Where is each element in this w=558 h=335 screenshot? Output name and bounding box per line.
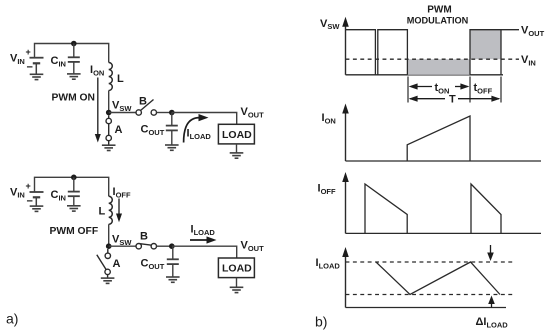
svg-text:a): a) xyxy=(6,311,18,327)
svg-text:CIN: CIN xyxy=(51,55,66,68)
ripple arrow up xyxy=(491,303,493,308)
wire LOAD to ground (PWM OFF) xyxy=(236,278,238,287)
node VSW junction dot (PWM ON) xyxy=(106,110,112,116)
VSW waveform VOUT level line xyxy=(501,29,519,31)
svg-text:VIN: VIN xyxy=(10,186,25,199)
svg-text:ILOAD: ILOAD xyxy=(187,128,212,141)
svg-text:IOFF: IOFF xyxy=(318,183,336,196)
inductor L (PWM OFF) xyxy=(109,196,113,224)
capacitor COUT (PWM OFF) xyxy=(167,246,179,277)
ground below switch A (PWM OFF) xyxy=(101,278,115,283)
switch B open (PWM ON) xyxy=(136,100,157,116)
wire LOAD to ground (PWM ON) xyxy=(236,144,238,153)
ground below LOAD (PWM OFF) xyxy=(230,287,244,292)
current arrow ION (PWM ON) xyxy=(97,78,99,135)
node COUT junction dot (PWM ON) xyxy=(169,110,175,116)
svg-text:+: + xyxy=(26,47,31,57)
svg-text:CIN: CIN xyxy=(51,189,66,202)
switch A open (PWM OFF) xyxy=(97,249,111,278)
ground below COUT (PWM ON) xyxy=(165,145,179,150)
svg-text:MODULATION: MODULATION xyxy=(407,16,469,26)
VSW waveform dimension ticks xyxy=(408,77,501,103)
VSW waveform pulse 1 xyxy=(346,30,376,75)
svg-text:VIN: VIN xyxy=(10,53,25,66)
svg-text:+: + xyxy=(26,181,31,191)
ILOAD lower dashed level xyxy=(346,294,515,296)
capacitor CIN (PWM OFF) xyxy=(68,177,80,205)
svg-text:VSW: VSW xyxy=(320,18,340,31)
svg-text:VOUT: VOUT xyxy=(241,240,265,253)
VSW waveform pulse 3 tOFF xyxy=(470,30,501,75)
VSW waveform baseline xyxy=(346,74,504,76)
svg-text:COUT: COUT xyxy=(141,124,165,137)
svg-text:T: T xyxy=(449,94,456,106)
svg-text:LOAD: LOAD xyxy=(222,263,252,275)
current arrow ILOAD straight (PWM OFF) xyxy=(190,239,209,241)
VSW waveform axis xyxy=(345,23,347,75)
VSW waveform pulse 2 xyxy=(378,30,408,75)
wire inductor to VSW node (PWM OFF) xyxy=(108,224,110,246)
svg-text:VSW: VSW xyxy=(112,100,132,113)
capacitor COUT (PWM ON) xyxy=(166,113,178,145)
svg-text:PWM: PWM xyxy=(427,4,451,15)
svg-text:VOUT: VOUT xyxy=(241,106,265,119)
switch B closed (PWM OFF) xyxy=(136,244,157,249)
IOFF waveform axis xyxy=(345,179,347,233)
wire COUT node to VOUT corner (PWM ON) xyxy=(172,113,237,125)
node COUT junction dot (PWM OFF) xyxy=(169,243,175,249)
ground below LOAD (PWM ON) xyxy=(230,153,244,158)
ION waveform axis xyxy=(345,110,347,161)
ground below VIN (PWM ON) xyxy=(30,74,44,79)
IOFF waveform sawtooth 2 xyxy=(471,184,501,233)
svg-text:−: − xyxy=(27,62,33,74)
svg-text:b): b) xyxy=(315,314,327,330)
current arrow ILOAD curved (PWM ON) xyxy=(184,118,200,143)
ground below CIN (PWM ON) xyxy=(67,74,81,79)
ILOAD waveform baseline xyxy=(346,307,507,309)
ILOAD upper dashed level xyxy=(346,261,515,263)
node junction dot CIN top (PWM ON) xyxy=(71,41,77,47)
svg-text:PWM OFF: PWM OFF xyxy=(50,226,99,237)
current arrow IOFF (PWM OFF) xyxy=(118,199,120,215)
wire switch B to COUT node (PWM OFF) xyxy=(157,245,172,247)
svg-text:VOUT: VOUT xyxy=(521,25,545,38)
ground below switch A (PWM ON) xyxy=(102,145,116,150)
wire switch B to COUT node (PWM ON) xyxy=(157,112,172,114)
wire VSW to switch B (PWM ON) xyxy=(109,112,136,114)
svg-text:tON: tON xyxy=(435,82,450,95)
svg-text:A: A xyxy=(113,258,121,270)
svg-text:L: L xyxy=(99,206,106,218)
svg-text:A: A xyxy=(115,124,123,136)
IOFF waveform baseline xyxy=(346,232,542,234)
wire top rail PWM ON xyxy=(35,44,109,63)
ground below VIN (PWM OFF) xyxy=(30,206,44,211)
VSW waveform shaded tOFF region xyxy=(470,30,501,60)
wire VSW to switch B (PWM OFF) xyxy=(109,245,136,247)
wire top rail PWM OFF xyxy=(35,177,109,196)
ILOAD waveform axis xyxy=(345,254,347,308)
ILOAD waveform triangle ripple xyxy=(376,262,500,295)
svg-text:tOFF: tOFF xyxy=(474,82,493,95)
svg-text:ILOAD: ILOAD xyxy=(316,257,341,270)
svg-text:L: L xyxy=(117,73,124,85)
wire COUT node to VOUT corner (PWM OFF) xyxy=(172,246,237,258)
load box LOAD (PWM ON) xyxy=(218,124,254,144)
VSW waveform VIN dashed level line xyxy=(346,58,520,60)
svg-text:IOFF: IOFF xyxy=(113,186,131,199)
svg-text:VIN: VIN xyxy=(521,54,536,67)
switch A closed (PWM ON) xyxy=(106,115,111,145)
svg-text:ILOAD: ILOAD xyxy=(191,224,216,237)
svg-text:ION: ION xyxy=(322,112,336,125)
capacitor CIN (PWM ON) xyxy=(68,44,80,74)
svg-text:VSW: VSW xyxy=(112,234,132,247)
dimension arrow tON xyxy=(409,83,470,89)
ground below CIN (PWM OFF) xyxy=(67,206,81,211)
VSW waveform shaded tON region xyxy=(407,59,469,75)
battery VIN (PWM OFF) xyxy=(30,192,44,206)
battery VIN (PWM ON) xyxy=(30,58,44,74)
ripple arrow down xyxy=(490,245,492,254)
ground below COUT (PWM OFF) xyxy=(166,277,180,282)
ION waveform ramp trapezoid xyxy=(407,116,470,161)
dimension arrow T xyxy=(409,96,501,102)
load box LOAD (PWM OFF) xyxy=(218,258,254,278)
svg-text:LOAD: LOAD xyxy=(222,129,252,141)
svg-text:PWM ON: PWM ON xyxy=(52,93,95,104)
svg-text:ION: ION xyxy=(90,64,104,77)
wire inductor to VSW node (PWM ON) xyxy=(108,91,110,113)
svg-text:ΔILOAD: ΔILOAD xyxy=(476,316,509,329)
IOFF waveform sawtooth 1 xyxy=(365,184,407,233)
svg-text:B: B xyxy=(139,96,147,108)
ION waveform baseline xyxy=(346,160,542,162)
inductor L (PWM ON) xyxy=(109,63,113,91)
svg-text:B: B xyxy=(140,231,148,243)
node VSW junction dot (PWM OFF) xyxy=(106,243,112,249)
svg-text:COUT: COUT xyxy=(141,258,165,271)
node junction dot CIN top (PWM OFF) xyxy=(71,175,77,181)
